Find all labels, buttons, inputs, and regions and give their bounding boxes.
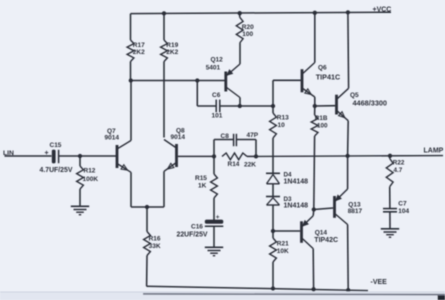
diode D3: [266, 196, 308, 210]
wire node A to R15: [213, 156, 215, 174]
svg-text:TIP41C: TIP41C: [316, 73, 340, 82]
power rail -VEE: [147, 286, 369, 290]
wire Q14 base: [273, 230, 300, 232]
wire C6 to Q12 collector: [220, 105, 240, 107]
wire Q13 base: [314, 208, 333, 210]
node Q12 collector: [238, 104, 242, 108]
svg-text:R20: R20: [242, 24, 254, 31]
node output Q5/Q13: [345, 154, 349, 158]
wire R13 to D4: [272, 138, 274, 173]
svg-text:22K: 22K: [244, 161, 256, 168]
transistor Q5: [337, 88, 349, 120]
svg-text:R15: R15: [195, 175, 207, 182]
svg-text:1N4148: 1N4148: [284, 178, 309, 185]
wire input to C15: [5, 155, 52, 157]
wire node to Q5 base: [315, 105, 335, 107]
wire Q5 emitter to output: [347, 121, 350, 156]
wire D3 to Q14 base node: [272, 205, 274, 231]
node rail Q14: [311, 287, 315, 291]
transistor Q8 label: [171, 128, 186, 142]
wire Q7 collector up: [130, 81, 132, 141]
wire Q5 collector to rail: [347, 12, 350, 88]
ground at C16: [205, 247, 223, 255]
-VEE label: [371, 279, 388, 286]
wire node to R21: [272, 231, 274, 238]
node Q14 base: [271, 229, 275, 233]
node C6 tap: [195, 78, 199, 82]
svg-text:LAMP: LAMP: [424, 148, 444, 155]
svg-text:2K2: 2K2: [166, 49, 178, 56]
wire Q8 emitter down: [163, 171, 165, 207]
page corner mark: [438, 296, 445, 300]
svg-text:Q12: Q12: [211, 57, 224, 64]
wire Q14 emitter up: [312, 210, 315, 216]
wire R12 to ground: [79, 189, 81, 206]
svg-text:100: 100: [317, 123, 328, 130]
svg-text:22UF/25V: 22UF/25V: [177, 231, 208, 238]
wire rail stub R20: [239, 13, 241, 17]
capacitor C8 loop right: [236, 140, 256, 157]
svg-text:C8: C8: [221, 133, 230, 140]
wire to R16: [146, 207, 148, 232]
svg-text:33K: 33K: [149, 243, 161, 250]
transistor Q13 label: [348, 202, 363, 215]
wire Q12 emitter to R20: [239, 43, 241, 64]
node rail Q5: [346, 10, 350, 14]
transistor Q5 label: [350, 92, 387, 107]
capacitor C16: [177, 214, 224, 238]
wire C16 to ground: [213, 226, 215, 247]
svg-text:C15: C15: [50, 142, 62, 149]
wire node to R12: [79, 156, 81, 166]
LAMP output label: [424, 148, 444, 155]
wire Q13 to -VEE rail: [347, 225, 350, 291]
svg-text:R14: R14: [228, 161, 240, 168]
svg-text:10K: 10K: [277, 248, 289, 255]
transistor Q12: [226, 64, 240, 98]
node A: [212, 154, 216, 158]
svg-text:Q14: Q14: [315, 230, 328, 237]
resistor R15: [195, 174, 217, 198]
resistor R17: [127, 40, 145, 62]
svg-text:C6: C6: [212, 92, 221, 99]
wire C6 left leg: [197, 81, 215, 107]
svg-text:R13: R13: [277, 115, 289, 122]
wire R22 stub: [389, 156, 391, 159]
svg-text:1N4148: 1N4148: [284, 202, 309, 209]
node R12 tap: [78, 154, 82, 158]
wire C7 to ground: [389, 212, 391, 229]
resistor R14: [222, 153, 256, 168]
wire R18 top stub: [314, 106, 316, 115]
wire Q12 collector down: [239, 98, 241, 107]
svg-text:C16: C16: [191, 223, 203, 230]
node Q6 emitter / R18: [313, 104, 317, 108]
capacitor C8: [221, 132, 259, 146]
svg-text:R16: R16: [149, 236, 161, 243]
node Q7 collector / R17: [129, 78, 133, 82]
wire Q14 collector to rail: [312, 249, 314, 290]
wire R21 to -VEE rail: [272, 262, 274, 289]
svg-text:47P: 47P: [247, 132, 259, 139]
svg-text:C7: C7: [398, 201, 407, 208]
node Q13 base / Q14 emitter: [312, 207, 316, 211]
svg-text:R12: R12: [84, 168, 96, 175]
ground at R12: [71, 206, 89, 214]
transistor Q14 label: [314, 230, 338, 244]
wire R13 top stub: [272, 106, 274, 113]
wire VAS line: [240, 105, 273, 107]
wire R14 to node B: [247, 155, 256, 157]
node rail R20: [238, 11, 242, 15]
resistor R12: [77, 166, 99, 189]
svg-text:R22: R22: [393, 159, 405, 166]
wire output line: [256, 155, 443, 158]
svg-text:9014: 9014: [171, 134, 186, 141]
wire VAS to Q6 base: [273, 80, 301, 106]
node VAS output: [271, 104, 275, 108]
transistor Q6: [302, 63, 315, 98]
LIN input label: [3, 150, 14, 157]
transistor Q6 label: [316, 64, 340, 81]
transistor Q13: [335, 189, 348, 225]
wire D4 to D3: [272, 184, 274, 196]
transistor Q12 label: [206, 57, 223, 72]
resistor R20: [236, 17, 254, 43]
svg-text:R1B: R1B: [315, 115, 328, 122]
+VCC label: [373, 7, 392, 14]
svg-text:+: +: [45, 150, 49, 157]
svg-text:R21: R21: [277, 240, 289, 247]
svg-text:5401: 5401: [206, 64, 221, 71]
wire emitters join: [131, 206, 164, 208]
wire rail to R17: [130, 14, 132, 40]
svg-text:104: 104: [398, 208, 409, 215]
wire Q6 collector to rail: [314, 13, 316, 63]
wire Q7col node to Q12 base: [131, 80, 225, 82]
node output R22: [388, 154, 392, 158]
node B: [254, 154, 258, 158]
page edge line: [143, 293, 445, 296]
svg-text:+: +: [216, 214, 220, 221]
svg-text:8817: 8817: [348, 208, 363, 215]
wire R16 to -VEE rail: [146, 256, 148, 287]
wire Q7 emitter down: [130, 172, 132, 207]
transistor Q7: [117, 141, 131, 173]
capacitor C15: [40, 142, 73, 174]
capacitor C6: [212, 92, 223, 120]
resistor R19: [161, 40, 179, 62]
wire output to Q13: [347, 156, 349, 189]
node rail Q13: [346, 288, 350, 292]
wire Q8 base to node A: [178, 155, 214, 157]
transistor Q7 label: [105, 128, 120, 142]
resistor R22: [386, 159, 405, 187]
diode D4: [266, 172, 308, 186]
svg-text:100K: 100K: [83, 176, 99, 183]
svg-text:+VCC: +VCC: [373, 7, 392, 14]
svg-text:-VEE: -VEE: [371, 279, 388, 286]
node rail R21: [271, 286, 275, 290]
wire rail to R19: [163, 13, 165, 40]
wire R15 to C16: [213, 198, 215, 220]
transistor Q8: [164, 140, 177, 172]
svg-text:9014: 9014: [105, 134, 120, 141]
node rail R19: [162, 11, 166, 15]
svg-text:Q6: Q6: [318, 64, 327, 71]
ground at C7: [381, 229, 399, 237]
node rail Q6: [313, 11, 317, 15]
wire R22 to C7: [389, 187, 391, 209]
svg-text:2K2: 2K2: [133, 49, 145, 56]
page bottom band: [0, 292, 445, 300]
svg-text:4468/3300: 4468/3300: [353, 98, 388, 107]
svg-text:10: 10: [278, 122, 286, 129]
power rail +VCC: [131, 12, 392, 13]
svg-text:1K: 1K: [198, 183, 207, 190]
capacitor C7: [383, 201, 410, 215]
wire C15 to Q7 base: [59, 155, 116, 157]
wire Q6 emitter down: [314, 97, 316, 106]
svg-text:101: 101: [212, 113, 223, 120]
wire R18 down crossing output: [313, 136, 316, 210]
resistor R18: [311, 115, 328, 136]
node emitters: [145, 205, 149, 209]
svg-text:4.7: 4.7: [394, 167, 403, 174]
svg-text:TIP42C: TIP42C: [314, 237, 338, 244]
capacitor C8 loop left: [214, 140, 233, 157]
resistor R16: [144, 232, 161, 256]
resistor R21: [270, 238, 290, 262]
svg-text:4.7UF/25V: 4.7UF/25V: [40, 167, 73, 174]
svg-text:100: 100: [242, 31, 253, 38]
resistor R13: [270, 113, 290, 138]
wire R17 to node: [130, 62, 132, 81]
transistor Q14: [302, 216, 314, 249]
wire R19 to Q8 collector: [163, 62, 165, 138]
